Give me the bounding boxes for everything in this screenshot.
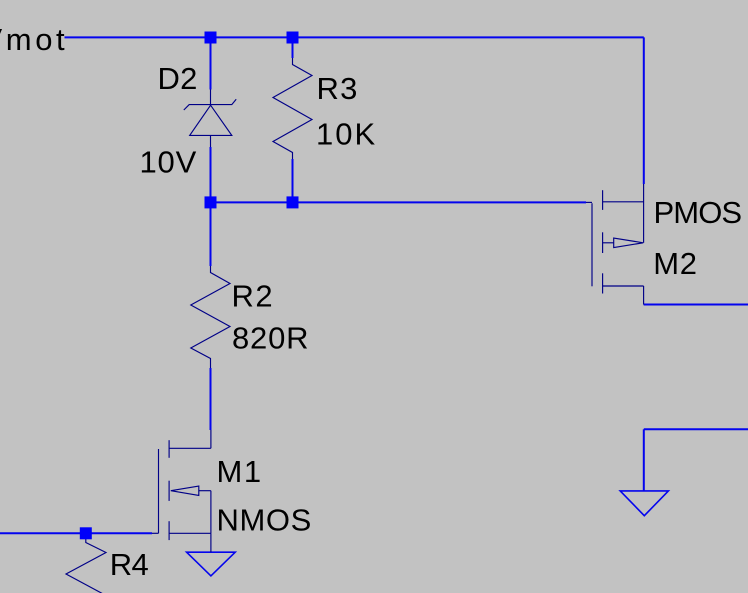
svg-text:10V: 10V <box>140 145 198 180</box>
svg-text:PMOS: PMOS <box>654 195 742 230</box>
svg-text:Vmot: Vmot <box>0 22 68 57</box>
svg-text:D2: D2 <box>158 61 198 96</box>
svg-text:NMOS: NMOS <box>217 503 312 538</box>
svg-text:820R: 820R <box>232 321 309 356</box>
svg-text:M2: M2 <box>653 246 698 281</box>
svg-text:R4: R4 <box>110 547 149 582</box>
svg-text:R3: R3 <box>317 71 359 106</box>
svg-text:M1: M1 <box>217 454 263 489</box>
svg-text:10K: 10K <box>316 117 377 152</box>
svg-text:R2: R2 <box>232 279 275 314</box>
